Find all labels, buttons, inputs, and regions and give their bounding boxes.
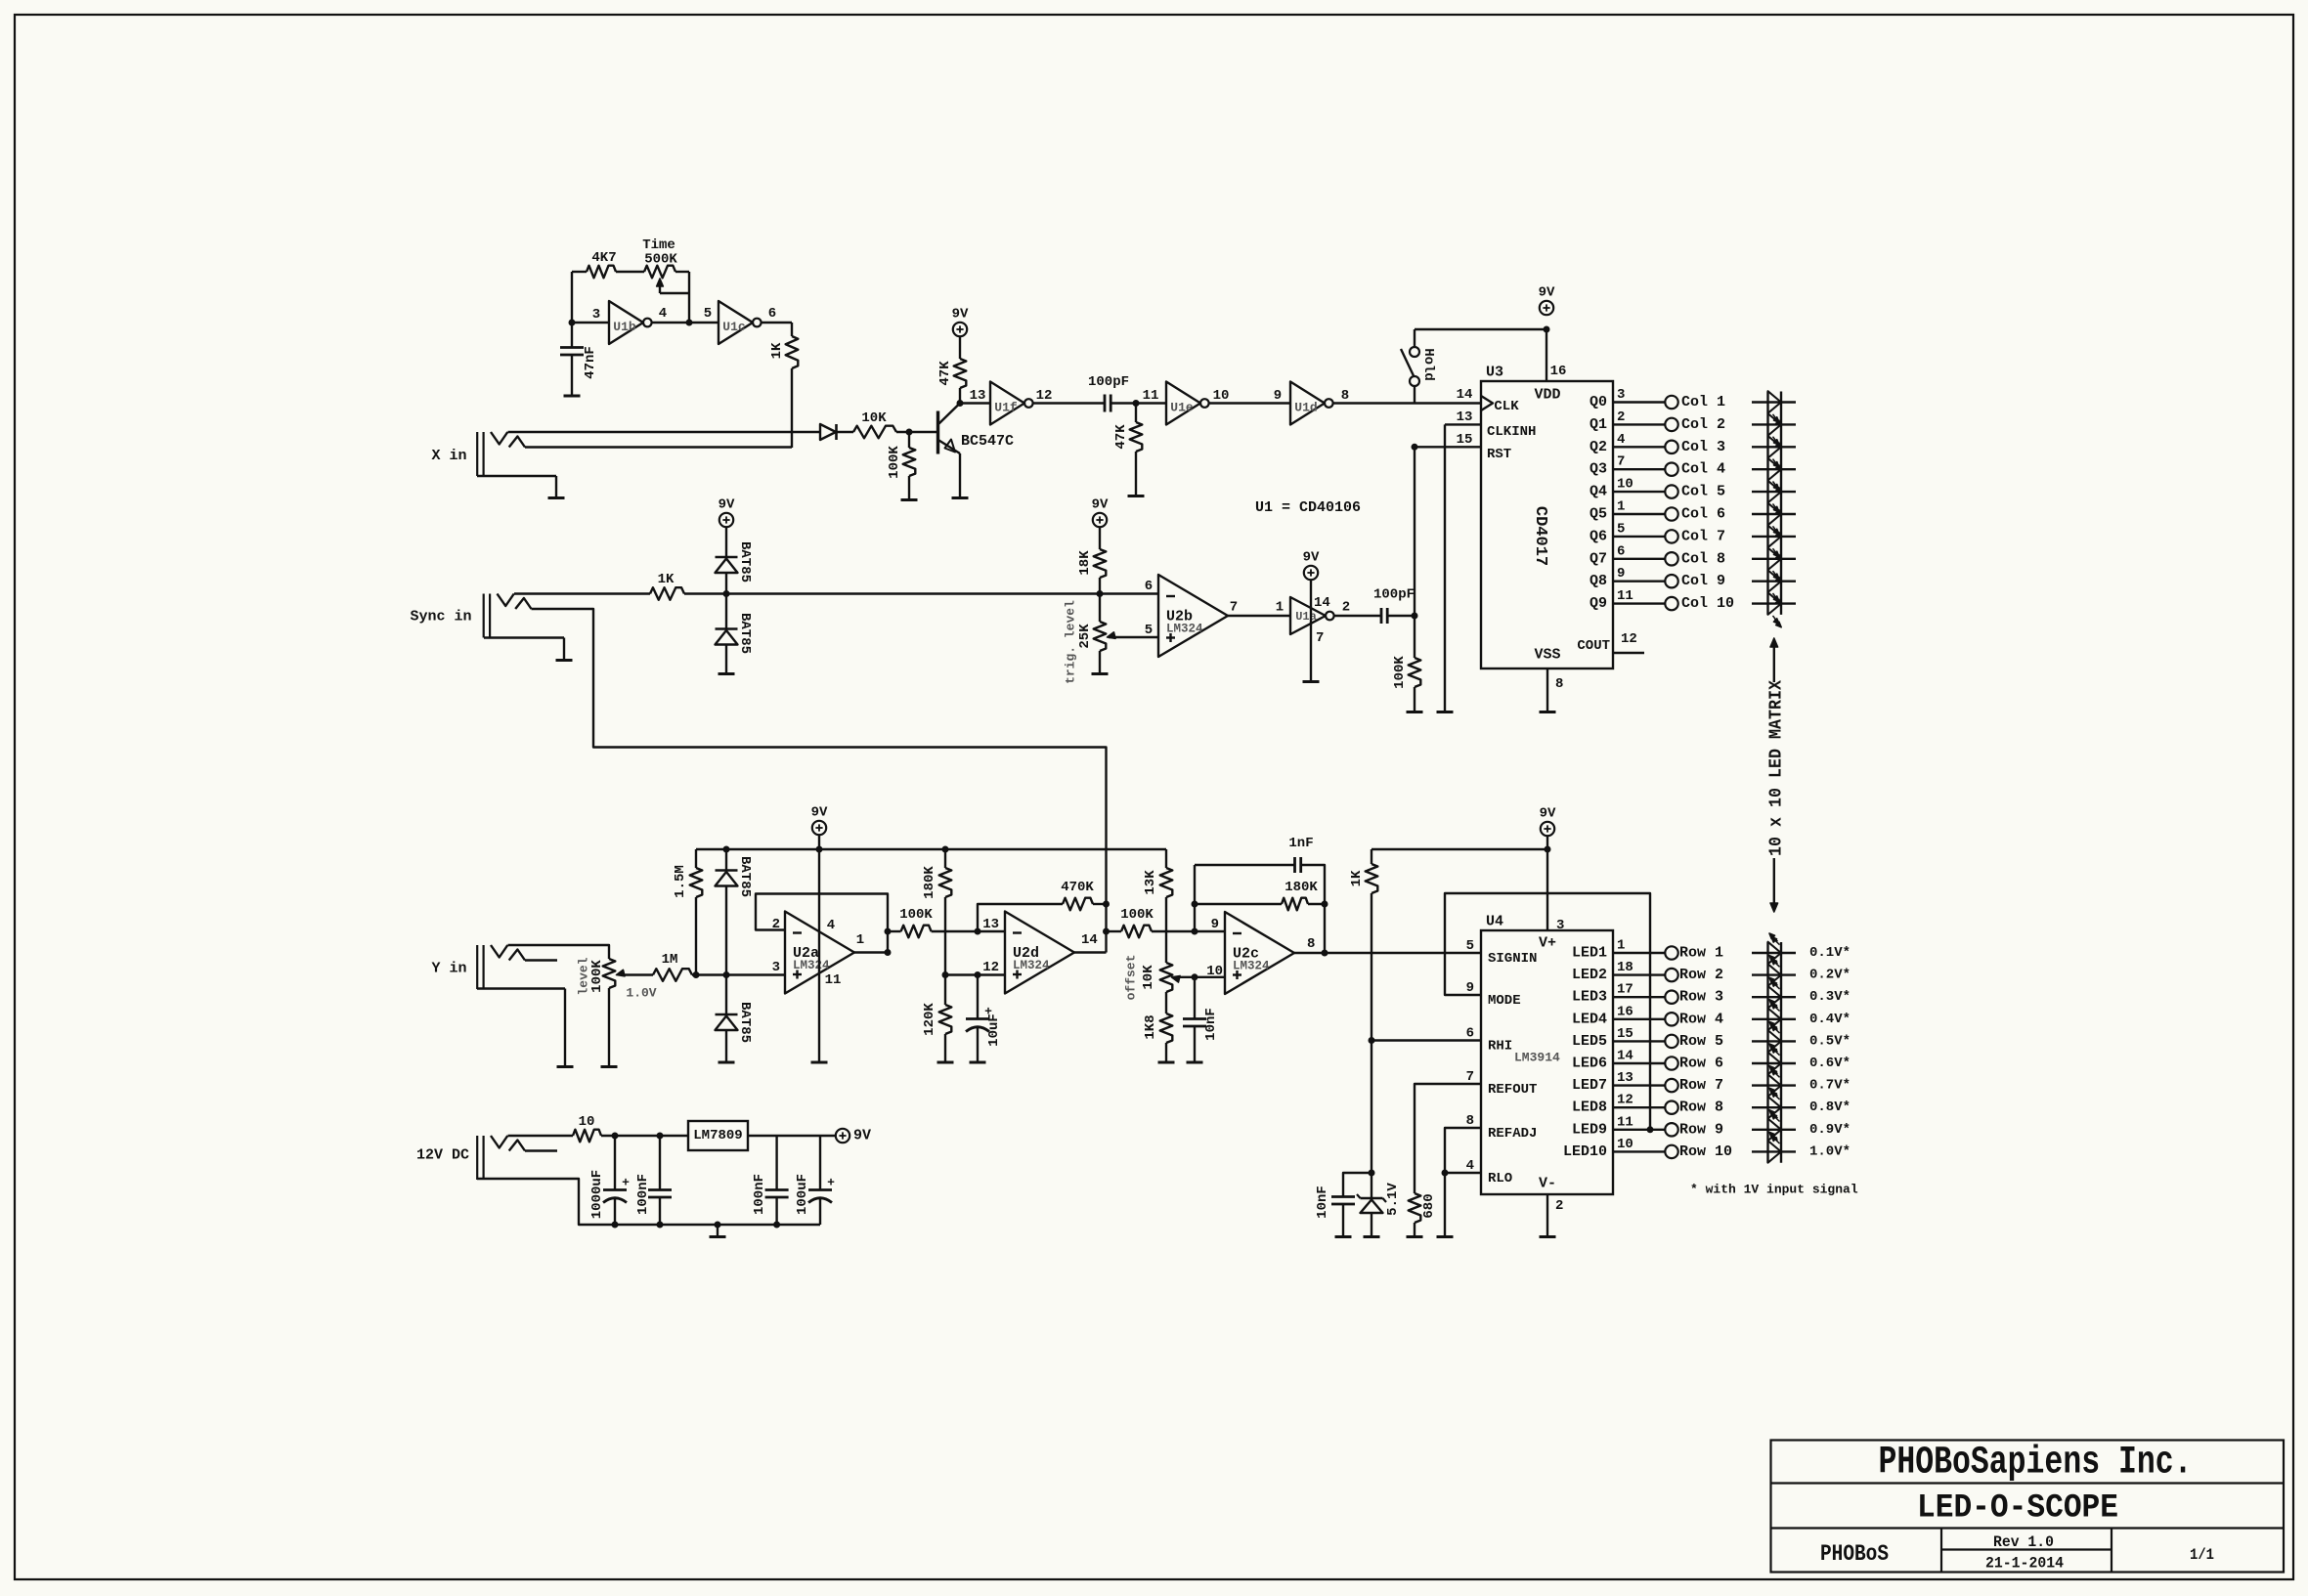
svg-text:2: 2: [1617, 410, 1625, 425]
svg-text:10nF: 10nF: [1315, 1186, 1330, 1219]
svg-text:14: 14: [1314, 595, 1330, 611]
svg-text:LED3: LED3: [1572, 989, 1607, 1006]
svg-text:3: 3: [772, 960, 780, 975]
svg-text:VDD: VDD: [1534, 387, 1560, 404]
svg-text:1K: 1K: [769, 342, 785, 359]
svg-text:500K: 500K: [644, 252, 677, 268]
svg-text:Row 9: Row 9: [1679, 1121, 1723, 1138]
svg-text:9V: 9V: [719, 497, 735, 513]
svg-text:LM324: LM324: [1013, 959, 1050, 972]
svg-text:5: 5: [704, 306, 712, 322]
svg-text:LED-O-SCOPE: LED-O-SCOPE: [1917, 1490, 2118, 1528]
svg-text:0.9V*: 0.9V*: [1809, 1122, 1851, 1138]
svg-text:BAT85: BAT85: [737, 541, 753, 582]
svg-text:1.0V: 1.0V: [626, 986, 656, 1001]
svg-text:LM324: LM324: [793, 959, 830, 972]
svg-text:U1e: U1e: [1170, 401, 1194, 415]
svg-text:7: 7: [1230, 600, 1238, 616]
svg-text:PHOBoSapiens Inc.: PHOBoSapiens Inc.: [1879, 1442, 2193, 1486]
svg-text:0.7V*: 0.7V*: [1809, 1078, 1851, 1094]
svg-text:* with 1V input signal: * with 1V input signal: [1690, 1183, 1858, 1197]
svg-text:CLKINH: CLKINH: [1487, 424, 1536, 440]
svg-text:17: 17: [1617, 982, 1633, 998]
svg-text:180K: 180K: [1285, 880, 1318, 895]
svg-text:Col 5: Col 5: [1681, 484, 1725, 500]
svg-text:8: 8: [1341, 388, 1349, 404]
svg-text:10nF: 10nF: [1203, 1008, 1219, 1041]
svg-text:MODE: MODE: [1488, 993, 1521, 1009]
svg-text:4: 4: [1466, 1158, 1474, 1174]
svg-text:Row 8: Row 8: [1679, 1100, 1723, 1116]
svg-text:Col 8: Col 8: [1681, 550, 1725, 567]
svg-text:7: 7: [1466, 1069, 1474, 1085]
svg-text:4: 4: [659, 306, 667, 322]
svg-text:Q5: Q5: [1589, 506, 1607, 523]
svg-text:680: 680: [1421, 1193, 1437, 1218]
svg-text:CD4017: CD4017: [1531, 506, 1549, 566]
svg-text:Row 3: Row 3: [1679, 989, 1723, 1006]
svg-text:1K8: 1K8: [1143, 1014, 1158, 1039]
svg-text:13: 13: [1457, 410, 1473, 425]
svg-text:2: 2: [1555, 1198, 1563, 1214]
svg-text:9V: 9V: [1092, 497, 1109, 513]
svg-text:RLO: RLO: [1488, 1171, 1512, 1186]
svg-text:1nF: 1nF: [1288, 836, 1313, 851]
svg-text:LED6: LED6: [1572, 1056, 1607, 1072]
svg-text:9: 9: [1274, 388, 1282, 404]
svg-text:LED1: LED1: [1572, 945, 1607, 962]
svg-text:Col 3: Col 3: [1681, 439, 1725, 455]
svg-text:3: 3: [592, 307, 600, 323]
svg-text:REFADJ: REFADJ: [1488, 1126, 1537, 1142]
svg-text:Sync in: Sync in: [410, 609, 471, 625]
svg-text:LED9: LED9: [1572, 1121, 1607, 1138]
svg-text:15: 15: [1457, 432, 1473, 448]
svg-text:100K: 100K: [887, 446, 902, 479]
svg-text:Row 5: Row 5: [1679, 1033, 1723, 1050]
svg-text:U1b: U1b: [613, 320, 636, 334]
svg-text:10: 10: [1617, 1137, 1633, 1152]
svg-text:15: 15: [1617, 1026, 1633, 1042]
svg-text:LED10: LED10: [1563, 1143, 1607, 1160]
svg-text:13K: 13K: [1143, 870, 1158, 895]
svg-text:0.1V*: 0.1V*: [1809, 945, 1851, 961]
svg-text:6: 6: [1145, 579, 1153, 594]
svg-text:Row 6: Row 6: [1679, 1056, 1723, 1072]
svg-text:V-: V-: [1539, 1176, 1556, 1192]
svg-text:Q4: Q4: [1589, 484, 1607, 500]
svg-text:+: +: [622, 1176, 630, 1190]
svg-text:Col 2: Col 2: [1681, 416, 1725, 433]
svg-text:LM3914: LM3914: [1514, 1051, 1560, 1065]
svg-text:BAT85: BAT85: [737, 1002, 753, 1043]
svg-text:U1a: U1a: [1295, 610, 1317, 624]
svg-text:Y in: Y in: [431, 961, 466, 977]
svg-text:Q9: Q9: [1589, 595, 1607, 612]
svg-text:11: 11: [825, 972, 842, 988]
svg-text:180K: 180K: [922, 866, 937, 899]
svg-text:RHI: RHI: [1488, 1039, 1512, 1055]
svg-text:trig. level: trig. level: [1064, 600, 1078, 684]
svg-text:16: 16: [1617, 1004, 1633, 1019]
svg-text:LED7: LED7: [1572, 1077, 1607, 1094]
svg-text:25K: 25K: [1077, 624, 1093, 649]
svg-text:12: 12: [1621, 631, 1637, 647]
svg-text:1/1: 1/1: [2190, 1546, 2214, 1564]
svg-text:16: 16: [1550, 364, 1567, 379]
svg-text:Rev 1.0: Rev 1.0: [1993, 1533, 2054, 1551]
svg-text:7: 7: [1617, 454, 1625, 470]
svg-text:2: 2: [1342, 600, 1350, 616]
svg-text:Row 1: Row 1: [1679, 945, 1723, 962]
svg-text:U4: U4: [1486, 914, 1503, 930]
svg-text:100nF: 100nF: [752, 1174, 767, 1215]
svg-text:Q3: Q3: [1589, 461, 1607, 478]
svg-text:9V: 9V: [853, 1128, 871, 1144]
svg-text:PHOBoS: PHOBoS: [1820, 1541, 1889, 1567]
svg-text:U1c: U1c: [722, 320, 746, 334]
svg-text:9V: 9V: [811, 805, 828, 821]
svg-text:9: 9: [1211, 917, 1219, 932]
svg-text:10K: 10K: [1141, 965, 1156, 990]
svg-text:8: 8: [1307, 936, 1315, 952]
svg-text:0.2V*: 0.2V*: [1809, 968, 1851, 983]
svg-text:1000uF: 1000uF: [589, 1170, 605, 1219]
svg-text:14: 14: [1081, 932, 1098, 948]
svg-text:18: 18: [1617, 960, 1633, 975]
svg-text:12V DC: 12V DC: [416, 1147, 469, 1164]
svg-text:12: 12: [1036, 388, 1053, 404]
svg-text:13: 13: [970, 388, 986, 404]
svg-text:10: 10: [579, 1114, 595, 1130]
svg-text:+: +: [827, 1176, 835, 1190]
svg-text:1: 1: [856, 932, 864, 948]
svg-text:47K: 47K: [1113, 424, 1129, 450]
svg-text:10 x 10 LED MATRIX: 10 x 10 LED MATRIX: [1767, 680, 1787, 856]
svg-text:100uF: 100uF: [795, 1174, 810, 1215]
svg-text:12: 12: [982, 960, 999, 975]
svg-text:9V: 9V: [1303, 550, 1320, 566]
svg-text:Q6: Q6: [1589, 528, 1607, 544]
svg-text:6: 6: [768, 306, 776, 322]
svg-text:5: 5: [1466, 938, 1474, 954]
svg-text:4: 4: [1617, 432, 1625, 448]
svg-text:Col 1: Col 1: [1681, 394, 1725, 410]
svg-text:470K: 470K: [1061, 880, 1094, 895]
svg-text:5: 5: [1145, 623, 1153, 638]
svg-text:Col 6: Col 6: [1681, 506, 1725, 523]
svg-text:LED8: LED8: [1572, 1100, 1607, 1116]
svg-text:100K: 100K: [589, 960, 605, 993]
svg-text:Hold: Hold: [1420, 348, 1436, 381]
svg-text:9: 9: [1617, 566, 1625, 582]
svg-text:1: 1: [1617, 938, 1625, 954]
svg-text:LED2: LED2: [1572, 967, 1607, 983]
svg-text:7: 7: [1316, 630, 1324, 646]
svg-text:47K: 47K: [937, 361, 953, 386]
svg-text:47nF: 47nF: [583, 346, 598, 379]
svg-text:100pF: 100pF: [1088, 374, 1129, 390]
svg-text:9V: 9V: [1540, 806, 1556, 822]
svg-text:LM324: LM324: [1233, 960, 1270, 973]
svg-text:6: 6: [1466, 1026, 1474, 1042]
svg-text:9: 9: [1466, 980, 1474, 996]
svg-text:120K: 120K: [922, 1003, 937, 1036]
svg-text:U1 = CD40106: U1 = CD40106: [1255, 499, 1361, 516]
svg-text:0.6V*: 0.6V*: [1809, 1056, 1851, 1071]
svg-text:V+: V+: [1539, 935, 1556, 952]
svg-text:0.8V*: 0.8V*: [1809, 1100, 1851, 1115]
svg-text:Row 2: Row 2: [1679, 967, 1723, 983]
svg-text:LED4: LED4: [1572, 1011, 1607, 1027]
svg-text:U1d: U1d: [1294, 401, 1317, 415]
svg-text:Col 10: Col 10: [1681, 595, 1734, 612]
svg-text:8: 8: [1466, 1113, 1474, 1129]
svg-text:1K: 1K: [658, 572, 675, 587]
svg-text:100pF: 100pF: [1373, 587, 1415, 603]
svg-text:SIGNIN: SIGNIN: [1488, 951, 1537, 967]
svg-text:3: 3: [1617, 387, 1625, 403]
svg-text:1M: 1M: [662, 952, 678, 968]
svg-text:11: 11: [1617, 1114, 1633, 1130]
svg-text:1K: 1K: [1349, 870, 1365, 886]
svg-text:Col 4: Col 4: [1681, 461, 1725, 478]
svg-text:11: 11: [1143, 388, 1159, 404]
svg-text:Q0: Q0: [1589, 394, 1607, 410]
svg-text:COUT: COUT: [1577, 638, 1610, 654]
svg-text:LM7809: LM7809: [693, 1128, 742, 1143]
svg-text:BAT85: BAT85: [737, 856, 753, 897]
svg-text:0.3V*: 0.3V*: [1809, 989, 1851, 1005]
svg-text:10: 10: [1617, 477, 1633, 493]
svg-text:0.5V*: 0.5V*: [1809, 1033, 1851, 1049]
svg-text:U3: U3: [1486, 365, 1503, 381]
svg-text:0.4V*: 0.4V*: [1809, 1012, 1851, 1027]
svg-text:Q2: Q2: [1589, 439, 1607, 455]
svg-text:VSS: VSS: [1534, 647, 1560, 664]
svg-text:Q8: Q8: [1589, 573, 1607, 589]
svg-text:9V: 9V: [1539, 285, 1555, 301]
svg-text:Row 10: Row 10: [1679, 1143, 1732, 1160]
svg-text:Col 9: Col 9: [1681, 573, 1725, 589]
svg-text:Q1: Q1: [1589, 416, 1607, 433]
svg-text:Q7: Q7: [1589, 550, 1607, 567]
svg-text:1: 1: [1276, 600, 1284, 616]
svg-text:100K: 100K: [1120, 907, 1154, 923]
svg-text:5.1V: 5.1V: [1385, 1183, 1401, 1216]
svg-text:13: 13: [982, 917, 999, 932]
svg-text:offset: offset: [1124, 955, 1139, 1001]
svg-text:21-1-2014: 21-1-2014: [1985, 1555, 2064, 1573]
svg-text:LM324: LM324: [1166, 623, 1203, 636]
svg-text:X in: X in: [431, 448, 466, 464]
svg-text:4: 4: [827, 918, 835, 933]
svg-text:100K: 100K: [899, 907, 933, 923]
svg-text:U1f: U1f: [994, 401, 1018, 415]
svg-text:Col 7: Col 7: [1681, 528, 1725, 544]
svg-text:CLK: CLK: [1494, 399, 1519, 414]
svg-text:LED5: LED5: [1572, 1033, 1607, 1050]
svg-text:BC547C: BC547C: [961, 433, 1014, 450]
svg-text:BAT85: BAT85: [737, 613, 753, 654]
svg-text:14: 14: [1457, 387, 1473, 403]
svg-text:4K7: 4K7: [591, 250, 616, 266]
svg-text:10: 10: [1213, 388, 1230, 404]
svg-text:Row 7: Row 7: [1679, 1077, 1723, 1094]
svg-text:18K: 18K: [1077, 550, 1093, 576]
svg-text:5: 5: [1617, 521, 1625, 537]
svg-text:11: 11: [1617, 588, 1633, 604]
svg-text:10uF: 10uF: [986, 1014, 1002, 1047]
svg-text:RST: RST: [1487, 447, 1511, 462]
svg-text:REFOUT: REFOUT: [1488, 1082, 1537, 1098]
svg-text:6: 6: [1617, 543, 1625, 559]
svg-text:8: 8: [1555, 676, 1563, 692]
svg-text:9V: 9V: [952, 307, 969, 323]
svg-text:14: 14: [1617, 1049, 1633, 1064]
svg-text:10: 10: [1206, 964, 1223, 979]
svg-text:1.5M: 1.5M: [673, 865, 688, 898]
svg-text:100K: 100K: [1392, 656, 1408, 689]
svg-text:12: 12: [1617, 1093, 1633, 1108]
svg-text:1: 1: [1617, 499, 1625, 515]
svg-text:Row 4: Row 4: [1679, 1011, 1723, 1027]
svg-text:100nF: 100nF: [635, 1174, 651, 1215]
svg-text:10K: 10K: [861, 410, 887, 426]
svg-text:1.0V*: 1.0V*: [1809, 1143, 1851, 1159]
svg-text:13: 13: [1617, 1070, 1633, 1086]
